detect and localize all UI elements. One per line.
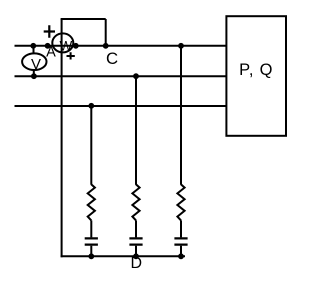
wire: wattmeter loop drop to node C — [105, 19, 107, 46]
wire: branch 2 capacitor to D — [135, 246, 137, 257]
wire: branch 1 vertical upper — [90, 106, 92, 185]
wire: neutral line D (bottom) — [61, 255, 185, 257]
wire: branch 3 vertical upper — [180, 46, 182, 185]
junction dot: V bottom on line 2 — [31, 73, 37, 79]
junction dot: branch 1 on line 3 — [88, 103, 94, 109]
junction dot: node C on line 1 — [103, 43, 109, 49]
polarity mark + (top, wattmeter current coil) — [44, 25, 55, 38]
capacitor C1 — [85, 238, 98, 244]
junction dot: V top on line 1 — [30, 43, 36, 49]
wire: phase line 2 (middle bus) — [15, 75, 227, 77]
capacitor C2 — [129, 238, 142, 244]
junction dot: W right terminal on line 1 — [73, 43, 79, 49]
svg-text:P, Q: P, Q — [239, 61, 273, 79]
wire: phase line 3 (bottom bus) — [15, 105, 227, 107]
wire: branch 1 resistor to capacitor — [90, 220, 92, 237]
svg-text:V: V — [31, 56, 41, 73]
resistor R1 — [88, 184, 95, 220]
junction dot: branch 1 on line D — [88, 253, 94, 259]
svg-text:W: W — [60, 38, 73, 53]
voltmeter V stub bottom — [33, 70, 35, 77]
wire: wattmeter top loop horizontal — [61, 18, 106, 20]
voltmeter V1 — [22, 53, 46, 70]
junction dot: branch 3 on line 1 — [178, 43, 184, 49]
wire: phase line 1 (top bus) — [15, 45, 227, 47]
wire: branch 3 resistor to capacitor — [180, 220, 182, 237]
wattmeter W1 — [52, 33, 73, 52]
polarity mark + (bottom, wattmeter potential coil) — [67, 52, 75, 59]
resistor R3 — [177, 184, 184, 220]
wire: branch 2 vertical upper — [135, 76, 137, 185]
wire: wattmeter potential lead vertical (through W down to D) — [61, 19, 63, 257]
capacitor C3 — [174, 238, 187, 244]
svg-text:C: C — [106, 49, 118, 68]
junction dot: W left terminal on line 1 — [45, 43, 51, 49]
wire: branch 2 resistor to capacitor — [135, 220, 137, 237]
junction dot: branch 2 on line D — [133, 253, 139, 259]
resistor R2 — [132, 184, 139, 220]
junction dot: branch 2 on line 2 — [133, 73, 139, 79]
wire: branch 1 capacitor to D — [90, 246, 92, 257]
load box P,Q — [226, 16, 286, 136]
voltmeter V stub top — [33, 46, 35, 54]
junction dot: branch 3 on line D — [178, 253, 184, 259]
wire: branch 3 capacitor to D — [180, 246, 182, 257]
